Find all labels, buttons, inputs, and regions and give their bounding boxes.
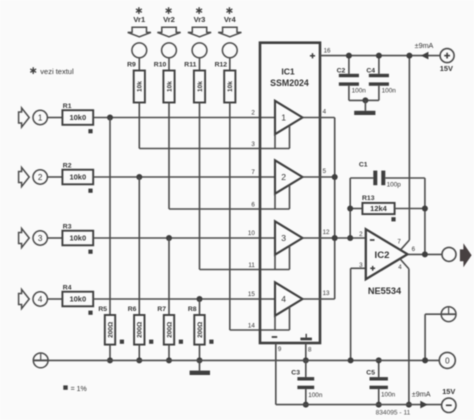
wire out3 bus to IC2 pin 2 [347, 235, 353, 241]
resistor R4 label [63, 285, 72, 292]
C1 value 100p [387, 181, 402, 188]
Vr4 terminal circle [222, 43, 237, 58]
wire control 3 to IC1 [200, 269, 290, 271]
wire C1 right down to output [424, 178, 426, 254]
IC2 pin 6 label [412, 246, 416, 253]
wire input 3 to R3 [47, 237, 62, 239]
junction pin4 negative rail [406, 402, 412, 408]
svg-text:2: 2 [359, 231, 363, 238]
Vr3 asterisk [196, 7, 202, 14]
wire amp 4 output pin 13 [303, 298, 335, 300]
legend 1 percent text [71, 386, 87, 393]
amp 4 control stub [289, 307, 291, 330]
svg-text:200Ω: 200Ω [166, 322, 173, 338]
svg-text:R2: R2 [63, 163, 72, 170]
svg-text:R13: R13 [362, 195, 375, 202]
svg-text:3: 3 [281, 233, 286, 243]
R8 1% marker [209, 340, 213, 344]
resistor R12 10k [224, 71, 235, 103]
resistor R12 label [215, 62, 228, 69]
svg-text:9: 9 [278, 346, 282, 353]
Vr4 connector arrow [218, 27, 241, 37]
ground symbol below R8 junction [190, 360, 210, 375]
svg-text:C5: C5 [366, 370, 375, 377]
wire control 1 to IC1 [139, 148, 289, 150]
IC2 plus input mark [370, 266, 375, 271]
svg-text:7: 7 [397, 238, 401, 245]
wire input 2 to R2 [47, 176, 62, 178]
IC2 pin 2 label [359, 231, 363, 238]
terminal 0V circle [439, 352, 455, 368]
legend text vezi textul [40, 67, 74, 76]
svg-text:3: 3 [359, 262, 363, 269]
resistor R4 10k0 [62, 292, 93, 307]
wire IC2 pin3 to ground [351, 268, 366, 360]
IC1 input pin 10 label [248, 230, 255, 237]
current arrow 9mA bottom [420, 401, 428, 409]
svg-text:vezi textul: vezi textul [40, 67, 74, 76]
resistor R7 200R [164, 315, 174, 345]
capacitor C3 label [291, 370, 300, 377]
ground rail wire [48, 359, 439, 361]
svg-text:SSM2024: SSM2024 [270, 78, 309, 88]
svg-text:200Ω: 200Ω [137, 322, 144, 338]
wire R8 to ground rail [199, 345, 201, 361]
svg-text:10k: 10k [227, 81, 234, 92]
IC2 label [375, 250, 390, 261]
ground input terminal [33, 353, 48, 368]
IC1 pin 4 label [323, 108, 327, 115]
IC1 pin 16 label [324, 48, 331, 55]
wire IC2 output [408, 253, 443, 255]
capacitor C5 100n [370, 360, 388, 404]
svg-text:2: 2 [38, 173, 43, 182]
Vr3 terminal circle [192, 43, 207, 58]
wire R1 to IC1 amp 1 [93, 117, 275, 119]
svg-text:NE5534: NE5534 [368, 286, 402, 296]
amp 2 control stub [289, 185, 291, 209]
capacitor C4 label [366, 68, 375, 75]
resistor R6 200R [134, 315, 144, 345]
resistor R10 10k [163, 71, 174, 103]
C5 value 100n [381, 391, 396, 398]
C4 value 100n [382, 88, 397, 95]
svg-text:3: 3 [251, 141, 255, 148]
svg-text:R12: R12 [215, 62, 228, 69]
resistor R8 200R [194, 315, 204, 345]
svg-text:R9: R9 [127, 62, 136, 69]
input connector arrow 4 [19, 289, 30, 308]
svg-text:R6: R6 [128, 306, 137, 313]
svg-text:4: 4 [281, 294, 286, 304]
Vr1 label [133, 15, 146, 24]
legend 1 percent marker [63, 385, 67, 389]
IC1 control pin 11 label [248, 262, 255, 269]
amp 1 feedback stub [274, 134, 276, 148]
wire node row 3 down to R7 [168, 238, 170, 315]
wire amp 1 output pin 4 [303, 117, 335, 119]
svg-text:13: 13 [323, 290, 330, 297]
Vr2 connector arrow [157, 27, 180, 37]
Vr1 terminal circle [132, 43, 147, 58]
R13 1% marker [391, 217, 395, 221]
svg-text:Vr4: Vr4 [224, 15, 237, 24]
IC2 pin 4 label [398, 264, 402, 271]
resistor R3 10k0 [62, 231, 93, 246]
node junction row 4 [197, 296, 203, 302]
svg-text:10k0: 10k0 [69, 234, 86, 243]
resistor R11 10k [194, 71, 205, 103]
R6 1% marker [149, 340, 153, 344]
R5 1% marker [120, 340, 124, 344]
IC1 plus supply mark [310, 53, 315, 58]
legend asterisk (see text) [30, 67, 36, 74]
svg-text:Vr3: Vr3 [194, 15, 206, 24]
Vr2 label [163, 15, 175, 24]
Vr3 label [194, 15, 206, 24]
IC2 pin 4 supply wire [400, 259, 409, 405]
IC1 pin 5 label [323, 168, 327, 175]
svg-text:4: 4 [398, 264, 402, 271]
IC2 pin 7 label [397, 238, 401, 245]
wire control 2 to IC1 [169, 208, 290, 210]
IC2 pin 7 supply wire [400, 56, 409, 251]
svg-text:0: 0 [445, 356, 450, 365]
svg-text:10k0: 10k0 [69, 173, 86, 182]
capacitor C2 100n [339, 56, 366, 101]
svg-text:12k4: 12k4 [370, 204, 388, 213]
wire input 4 to R4 [47, 298, 62, 300]
svg-text:100n: 100n [352, 88, 367, 95]
VCA amp 3 triangle [275, 221, 303, 254]
capacitor C1 label [359, 161, 368, 168]
svg-text:6: 6 [412, 246, 416, 253]
svg-text:2: 2 [281, 172, 286, 182]
junction C5 ground rail [376, 357, 382, 363]
IC1 input pin 2 label [251, 109, 255, 116]
svg-text:10k: 10k [166, 81, 173, 92]
capacitor C5 label [366, 370, 375, 377]
junction IC2 pin3 ground rail [348, 357, 354, 363]
wire IC1 pin16 to +15V [320, 55, 440, 57]
svg-text:834095 - 11: 834095 - 11 [376, 410, 411, 417]
wire R9 down to control pin row 1 [138, 103, 140, 149]
svg-text:100n: 100n [381, 391, 396, 398]
junction C2 C4 common [362, 97, 368, 103]
svg-text:100n: 100n [382, 88, 397, 95]
svg-text:11: 11 [248, 262, 255, 269]
svg-text:R11: R11 [184, 62, 196, 69]
capacitor C4 100n [365, 56, 389, 101]
resistor R11 label [184, 62, 196, 69]
svg-text:10: 10 [248, 230, 255, 237]
svg-text:R1: R1 [63, 103, 72, 110]
resistor R3 label [63, 224, 72, 231]
junction pin 8 ground [303, 357, 309, 363]
IC1 input pin 7 label [251, 169, 255, 176]
R3 1% marker [88, 250, 92, 254]
capacitor C2 label [337, 68, 346, 75]
junction C2 top rail [346, 53, 352, 59]
Vr4 asterisk [226, 7, 232, 14]
svg-text:Vr2: Vr2 [163, 15, 175, 24]
wire C1 left down to R13 [349, 178, 351, 238]
VCA amp 4 triangle [275, 282, 303, 315]
input connector arrow 1 [19, 108, 30, 127]
resistor R2 10k0 [62, 170, 93, 185]
op-amp IC2 triangle [366, 229, 408, 279]
resistor R10 label [154, 62, 167, 69]
svg-text:15V: 15V [442, 387, 455, 396]
input terminal circle 3 [33, 231, 47, 245]
svg-text:C1: C1 [359, 161, 368, 168]
capacitor C1 100p [350, 171, 425, 186]
svg-text:10k0: 10k0 [69, 113, 86, 122]
chassis terminal [441, 307, 456, 322]
IC1 label [281, 67, 295, 77]
wire R2 to IC1 amp 2 [93, 176, 275, 178]
svg-text:7: 7 [251, 169, 255, 176]
ground symbol below C2 C4 [354, 100, 375, 115]
svg-text:4: 4 [38, 295, 43, 304]
IC1 minus supply mark [272, 336, 278, 338]
IC1 pin 12 label [323, 229, 330, 236]
Vr3 connector arrow [188, 27, 211, 37]
bus junction out3 [332, 235, 338, 241]
bus junction out2 [332, 174, 338, 180]
output terminal circle [442, 247, 456, 261]
junction pin7 top rail [406, 53, 412, 59]
input terminal circle 4 [33, 292, 47, 306]
VCA amp 2 triangle [275, 160, 303, 193]
current label 9mA bottom [412, 389, 431, 398]
C3 value 100n [308, 392, 323, 399]
Vr1 connector arrow [128, 27, 151, 37]
C2 value 100n [352, 88, 367, 95]
negative rail wire [276, 404, 442, 406]
svg-text:16: 16 [324, 48, 331, 55]
IC1 ground mark [300, 334, 312, 341]
amp 3 control stub [289, 246, 291, 270]
node junction row 1 [107, 115, 113, 121]
svg-text:15V: 15V [440, 64, 453, 73]
input connector arrow 3 [19, 228, 30, 247]
R7 1% marker [179, 340, 183, 344]
resistor R7 label [157, 306, 166, 313]
junction R13 right [422, 206, 428, 212]
Vr2 terminal circle [162, 43, 177, 58]
output arrow [460, 243, 472, 267]
wire R3 to IC1 amp 3 [93, 237, 275, 239]
svg-text:100n: 100n [308, 392, 323, 399]
svg-text:C2: C2 [337, 68, 346, 75]
resistor R13 label [362, 195, 375, 202]
node junction row 2 [136, 174, 142, 180]
Vr1 asterisk [136, 7, 142, 14]
VCA amp 1 triangle [275, 101, 303, 134]
junction C5 negative rail [376, 402, 382, 408]
wire R6 to ground rail [138, 345, 140, 361]
resistor R9 10k [134, 71, 145, 103]
resistor R8 label [188, 306, 197, 313]
svg-text:6: 6 [251, 201, 255, 208]
op-amp IC1 SSM2024 box [260, 43, 320, 343]
junction R13 left [347, 206, 353, 212]
wire control 4 to IC1 [230, 329, 290, 331]
svg-text:100p: 100p [387, 181, 402, 188]
svg-text:3: 3 [38, 234, 43, 243]
wire R7 to ground rail [168, 345, 170, 361]
svg-text:IC2: IC2 [375, 250, 390, 261]
svg-text:C3: C3 [291, 370, 300, 377]
R4 1% marker [88, 311, 92, 315]
resistor R6 label [128, 306, 137, 313]
junction chassis ground rail [422, 357, 428, 363]
wire node row 2 down to R6 [138, 177, 140, 315]
R1 1% marker [88, 129, 92, 133]
svg-text:±9mA: ±9mA [415, 41, 434, 50]
resistor R2 label [63, 163, 72, 170]
svg-text:10k: 10k [137, 81, 144, 92]
wire amp 2 output pin 5 [303, 176, 335, 178]
IC1 input pin 15 label [248, 291, 255, 298]
svg-text:R7: R7 [157, 306, 166, 313]
wire R4 to IC1 amp 4 [93, 298, 275, 300]
IC2 pin 3 label [359, 262, 363, 269]
wire R10 down to control pin row 2 [168, 103, 170, 210]
node junction row 3 [166, 235, 172, 241]
IC2 minus input mark [370, 239, 375, 241]
svg-text:R8: R8 [188, 306, 197, 313]
input connector arrow 2 [19, 167, 30, 186]
wire node row 1 down to R5 [109, 118, 111, 316]
Vr2 asterisk [166, 7, 172, 14]
svg-text:IC1: IC1 [281, 67, 295, 77]
svg-text:R3: R3 [63, 224, 72, 231]
wire Vr1 circle to R9 [138, 58, 140, 71]
IC2 type NE5534 [368, 286, 402, 296]
junction C3 negative rail [303, 402, 309, 408]
junction output node [422, 251, 428, 257]
IC1 pin 13 label [323, 290, 330, 297]
amp 1 control stub [289, 125, 291, 148]
wire Vr2 circle to R10 [168, 58, 170, 71]
wire R5 to ground rail [109, 345, 111, 361]
svg-text:1: 1 [281, 113, 286, 123]
terminal -15V circle [442, 398, 456, 412]
junction C4 top rail [376, 53, 382, 59]
IC1 control pin 14 label [248, 322, 255, 329]
svg-text:C4: C4 [366, 68, 375, 75]
label 15V bottom [442, 387, 455, 396]
input terminal circle 1 [33, 110, 47, 124]
svg-text:200Ω: 200Ω [197, 322, 204, 338]
resistor R1 10k0 [62, 110, 93, 125]
IC1 control pin 6 label [251, 201, 255, 208]
svg-text:±9mA: ±9mA [412, 389, 431, 398]
R2 1% marker [88, 189, 92, 193]
resistor R13 12k4 [350, 203, 425, 214]
resistor R5 200R [105, 315, 115, 345]
svg-text:1: 1 [38, 114, 43, 123]
wire IC1 pin 8 to ground rail [305, 343, 307, 360]
amp 3 feedback stub [274, 255, 276, 270]
junction R5 on ground rail [107, 357, 113, 363]
terminal +15V circle [440, 49, 454, 63]
IC1 control pin 3 label [251, 141, 255, 148]
svg-text:8: 8 [308, 347, 312, 354]
resistor R9 label [127, 62, 136, 69]
wire Vr3 circle to R11 [199, 58, 201, 71]
resistor R1 label [63, 103, 72, 110]
wire Vr4 circle to R12 [229, 58, 231, 71]
IC1 pin 8 label [308, 347, 312, 354]
svg-text:2: 2 [251, 109, 255, 116]
resistor R5 label [98, 306, 107, 313]
wire node row 4 down to R8 [199, 299, 201, 315]
svg-text:Vr1: Vr1 [133, 15, 146, 24]
IC1 pin 9 label [278, 346, 282, 353]
summing bus vertical wire [334, 118, 336, 300]
amp 4 feedback stub [274, 316, 276, 330]
svg-text:5: 5 [323, 168, 327, 175]
amp 2 feedback stub [274, 194, 276, 209]
wire R11 down to control pin row 3 [199, 103, 201, 270]
svg-text:4: 4 [323, 108, 327, 115]
wire amp 3 output pin 12 [303, 237, 366, 239]
label 15V top [440, 64, 453, 73]
input terminal circle 2 [33, 170, 47, 184]
current arrow 9mA top [421, 52, 429, 60]
wire input 1 to R1 [47, 117, 62, 119]
wire R12 down to control pin row 4 [229, 103, 231, 331]
Vr4 label [224, 15, 237, 24]
board number [376, 410, 411, 417]
svg-text:200Ω: 200Ω [107, 322, 114, 338]
svg-text:10k: 10k [197, 81, 204, 92]
svg-text:15: 15 [248, 291, 255, 298]
svg-text:= 1%: = 1% [71, 386, 87, 393]
IC1 type SSM2024 [270, 78, 309, 88]
svg-text:10k0: 10k0 [69, 295, 86, 304]
svg-text:R5: R5 [98, 306, 107, 313]
svg-text:R4: R4 [63, 285, 72, 292]
svg-text:R10: R10 [154, 62, 167, 69]
junction R7 on ground rail [166, 357, 172, 363]
junction R6 on ground rail [136, 357, 142, 363]
capacitor C3 100n [297, 360, 314, 404]
wire IC1 pin 9 to negative rail [275, 343, 277, 405]
junction R8 on ground rail [197, 357, 203, 363]
current label 9mA top [415, 41, 434, 50]
wire chassis to ground rail [425, 314, 441, 360]
svg-text:14: 14 [248, 322, 255, 329]
svg-text:12: 12 [323, 229, 330, 236]
